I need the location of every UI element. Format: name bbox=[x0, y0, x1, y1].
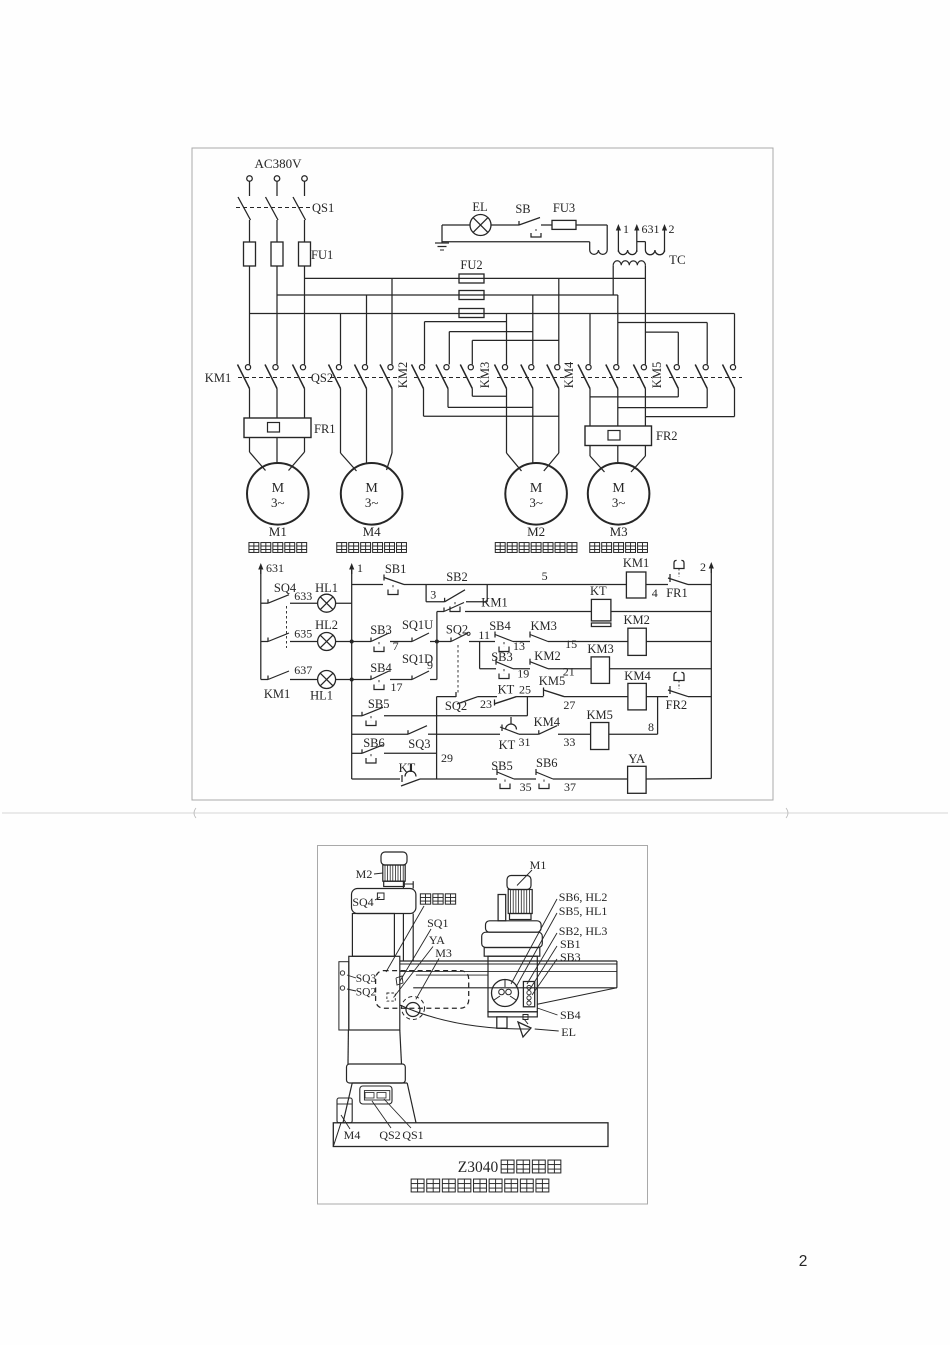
label SB4 machine bbox=[537, 1008, 580, 1022]
svg-text:FR1: FR1 bbox=[666, 586, 688, 600]
wire crossover KM4-KM5 c bbox=[645, 416, 734, 418]
svg-text:YA: YA bbox=[429, 933, 445, 947]
svg-text:SB6: SB6 bbox=[536, 756, 558, 770]
transformer TC secondary winding b bbox=[637, 242, 665, 255]
label FU2 bbox=[460, 258, 482, 272]
label EL bbox=[472, 200, 487, 214]
svg-text:SQ4: SQ4 bbox=[352, 895, 373, 909]
wire row A bbox=[352, 584, 712, 586]
svg-text:YA: YA bbox=[628, 752, 645, 766]
label SB2 bbox=[446, 570, 468, 584]
svg-text:SB3: SB3 bbox=[491, 650, 513, 664]
switch SQ4 contact b bbox=[268, 633, 289, 642]
wire QS2 outputs to M4 bbox=[341, 389, 393, 472]
svg-text:M: M bbox=[530, 481, 543, 496]
thermal relay FR1 bbox=[244, 418, 311, 438]
wire bus V drop to KM4 pole2 bbox=[617, 295, 619, 364]
svg-text:FR2: FR2 bbox=[666, 698, 688, 712]
svg-text:631: 631 bbox=[642, 222, 660, 236]
label M3 bbox=[610, 524, 628, 539]
svg-text:31: 31 bbox=[519, 735, 531, 749]
svg-text:M: M bbox=[365, 481, 378, 496]
transformer TC primary winding bbox=[613, 261, 645, 266]
wire node 8 branch bbox=[657, 697, 659, 735]
machine pedestal panel bbox=[360, 1086, 392, 1104]
label wire 635 bbox=[294, 627, 312, 641]
label KM5 main bbox=[650, 362, 664, 388]
button SB6 bbox=[362, 745, 383, 763]
wire bus V (y295) bbox=[277, 294, 618, 296]
label wire 5 bbox=[542, 569, 548, 583]
svg-text:M2: M2 bbox=[356, 867, 373, 881]
label SQ3 machine bbox=[347, 973, 376, 985]
svg-text:KT: KT bbox=[590, 584, 607, 598]
motor M2 bbox=[505, 463, 567, 525]
svg-text:8: 8 bbox=[648, 720, 654, 734]
link SQ2 contacts bbox=[457, 645, 459, 694]
svg-text:KM3: KM3 bbox=[478, 362, 492, 388]
wire EL return bbox=[442, 242, 590, 250]
link SQ4 contacts bbox=[286, 606, 288, 648]
svg-text:SB: SB bbox=[515, 202, 530, 216]
wire rail 1 bbox=[351, 570, 353, 779]
wire KM1 outputs to FR1 bbox=[250, 389, 305, 419]
label M4 machine bbox=[341, 1115, 360, 1142]
wire KM5 outputs bbox=[678, 389, 734, 417]
label KT coil bbox=[590, 584, 607, 598]
node tap 631 arrow bbox=[634, 222, 659, 252]
svg-text:7: 7 bbox=[393, 639, 399, 653]
svg-text:M4: M4 bbox=[344, 1128, 361, 1142]
label KM1 main bbox=[205, 371, 231, 385]
contactor KM3 main contacts bbox=[495, 365, 567, 389]
svg-text:KM4: KM4 bbox=[624, 669, 651, 683]
machine SQ1 switch detail bbox=[396, 976, 403, 985]
contactor KM2 main contacts bbox=[412, 365, 481, 389]
wire bus U to QS2 pole3 bbox=[391, 278, 393, 364]
contactor KM1 main contacts bbox=[238, 365, 313, 389]
coil KM1 bbox=[626, 572, 646, 598]
contact KT delayed close bbox=[495, 697, 517, 706]
machine column pole bbox=[403, 881, 413, 961]
label FU3 bbox=[553, 201, 575, 215]
svg-text:631: 631 bbox=[266, 561, 284, 575]
wire jumper KM5p2 feed bbox=[618, 323, 707, 365]
node 631 rail arrow bbox=[258, 561, 284, 575]
label SQ4 machine bbox=[352, 895, 380, 909]
wire crossover KM2-KM3 b bbox=[448, 406, 533, 408]
wire bus W (y313) bbox=[250, 313, 735, 315]
motor M4 bbox=[341, 463, 403, 525]
junction node 9 top bbox=[435, 640, 439, 644]
label SQ4 bbox=[274, 581, 297, 595]
page separator line bbox=[2, 808, 948, 818]
svg-text:HL2: HL2 bbox=[315, 618, 338, 632]
svg-text:29: 29 bbox=[441, 751, 453, 765]
svg-text:9: 9 bbox=[427, 658, 433, 672]
wire KM4 outputs to FR2 bbox=[590, 389, 645, 427]
label M3 machine bbox=[416, 946, 452, 999]
machine column neck bbox=[348, 1030, 402, 1064]
fuse FU3 bbox=[552, 220, 576, 229]
machine button box bbox=[523, 982, 534, 1007]
svg-text:2: 2 bbox=[669, 222, 675, 236]
label HL3 bbox=[310, 689, 333, 703]
label YA machine bbox=[394, 933, 446, 998]
wire SB to FU3 bbox=[541, 224, 552, 226]
switch SQ1U bbox=[412, 633, 429, 642]
button SB4 interlock bbox=[495, 632, 513, 652]
wire SQ3 row bbox=[352, 733, 437, 735]
svg-text:SB4: SB4 bbox=[560, 1008, 581, 1022]
switch SQ4 contact a bbox=[268, 595, 289, 604]
label SB3 bbox=[370, 623, 392, 637]
svg-text:HL1: HL1 bbox=[315, 581, 338, 595]
wire phase L3 drop to KM1 bbox=[304, 266, 306, 364]
machine lamp EL bbox=[518, 1015, 531, 1038]
label M4 bbox=[363, 524, 382, 539]
wire phase L2 drop to KM1 bbox=[276, 266, 278, 364]
label wire 9 bbox=[427, 658, 433, 672]
svg-text:19: 19 bbox=[517, 667, 529, 681]
wire row E bbox=[437, 733, 658, 735]
svg-text:FR2: FR2 bbox=[656, 429, 678, 443]
wire bus U (y278) bbox=[305, 277, 646, 279]
contact KM2 interlock bbox=[530, 659, 548, 669]
svg-text:FU2: FU2 bbox=[460, 258, 482, 272]
wire ground to EL bbox=[442, 224, 470, 226]
label KT delayed open bbox=[499, 738, 516, 752]
label KM5 coil bbox=[586, 708, 612, 722]
label wire 37 bbox=[564, 780, 576, 794]
svg-text:27: 27 bbox=[563, 698, 575, 712]
machine head ring bbox=[484, 948, 540, 957]
svg-text:SB3: SB3 bbox=[370, 623, 392, 637]
label wire 23 bbox=[480, 697, 492, 711]
svg-text:KM5: KM5 bbox=[586, 708, 612, 722]
svg-text:SQ2: SQ2 bbox=[446, 623, 468, 637]
label KM3 interlock bbox=[530, 619, 556, 633]
machine YA detail dashed bbox=[387, 993, 395, 1001]
machine column collar bbox=[347, 1064, 406, 1083]
contact KM1 aux bbox=[444, 603, 464, 612]
wire bus W drop to KM5 pole3 bbox=[734, 314, 736, 365]
label SB6 HL2 machine bbox=[511, 890, 607, 984]
label wire 11 bbox=[478, 628, 490, 642]
label YA coil bbox=[628, 752, 645, 766]
wire FU3 to TC lamp winding bbox=[576, 225, 607, 250]
label SB3 machine bbox=[532, 950, 581, 995]
svg-text:13: 13 bbox=[513, 639, 525, 653]
wire row B bbox=[352, 641, 712, 643]
button SB5 interlock bbox=[497, 769, 514, 789]
coil KM4 bbox=[628, 683, 646, 710]
contact KM4 aux bbox=[539, 726, 557, 735]
wire bus W to QS2 pole1 bbox=[340, 314, 342, 365]
svg-text:SB5, HL1: SB5, HL1 bbox=[559, 904, 608, 918]
svg-text:KM4: KM4 bbox=[534, 715, 561, 729]
wire bus V to QS2 pole2 bbox=[366, 295, 368, 364]
svg-text:M: M bbox=[272, 481, 285, 496]
machine base bbox=[333, 1123, 608, 1147]
contact KT delayed open bbox=[500, 717, 519, 734]
contact KT delayed close 2 bbox=[401, 764, 420, 786]
junction rail1 row B2 bbox=[350, 678, 354, 682]
motor M1 bbox=[247, 463, 309, 525]
svg-text:M2: M2 bbox=[527, 524, 545, 539]
svg-text:FU1: FU1 bbox=[311, 248, 333, 262]
machine arm underside curve bbox=[400, 1005, 530, 1029]
label SB2 HL3 machine bbox=[527, 924, 607, 984]
svg-text:3~: 3~ bbox=[529, 495, 543, 510]
svg-text:SB5: SB5 bbox=[368, 697, 390, 711]
contactor KM5 main contacts bbox=[666, 365, 742, 389]
label SQ1U bbox=[402, 618, 433, 632]
lamp HL1 bbox=[318, 594, 336, 612]
label M2 machine bbox=[356, 867, 383, 881]
page number 2 bbox=[799, 1253, 808, 1270]
caption Z3040 bbox=[458, 1159, 561, 1176]
wire jumper KM2p3 feed bbox=[472, 340, 559, 364]
contact FR1 NC bbox=[668, 560, 688, 584]
button SB2 bbox=[445, 590, 465, 612]
wire row B2 bbox=[352, 642, 437, 680]
svg-text:KM1: KM1 bbox=[205, 371, 231, 385]
svg-text:3~: 3~ bbox=[271, 495, 285, 510]
label wire 35 bbox=[520, 780, 532, 794]
label KM2 main bbox=[396, 362, 410, 388]
svg-text:25: 25 bbox=[519, 683, 531, 697]
wire jumper KM2p1 feed bbox=[425, 322, 507, 365]
label QS2 machine bbox=[372, 1101, 401, 1142]
wire bus U drop to KM4 pole3 bbox=[644, 278, 646, 364]
svg-text:QS1: QS1 bbox=[402, 1128, 423, 1142]
machine pedestal bbox=[343, 1083, 416, 1123]
terminal L1 bbox=[247, 176, 253, 196]
svg-text:SB1: SB1 bbox=[385, 562, 407, 576]
switch QS1 bbox=[236, 197, 311, 242]
transformer TC lamp winding bbox=[590, 250, 608, 254]
svg-text:KM2: KM2 bbox=[396, 362, 410, 388]
button SB1 bbox=[384, 575, 404, 595]
button SB6 interlock bbox=[536, 769, 553, 789]
svg-text:M: M bbox=[612, 481, 625, 496]
label wire 633 bbox=[294, 589, 312, 603]
label KM4 coil bbox=[624, 669, 651, 683]
label wire 7 bbox=[393, 639, 399, 653]
svg-text:FU3: FU3 bbox=[553, 201, 575, 215]
switch SQ2 contact a bbox=[451, 632, 470, 641]
label SQ3 bbox=[408, 737, 430, 751]
machine pump M4 box bbox=[337, 1098, 352, 1123]
label wire 21 bbox=[563, 665, 575, 679]
svg-text:KM1: KM1 bbox=[264, 687, 290, 701]
wire crossover KM2-KM3 a bbox=[472, 395, 506, 397]
svg-text:635: 635 bbox=[294, 627, 312, 641]
label SQ1 machine bbox=[400, 916, 448, 981]
switch SQ2 contact b bbox=[456, 692, 478, 704]
label wire 8 bbox=[648, 720, 654, 734]
fuse FU2 bbox=[459, 274, 484, 318]
svg-text:SB1: SB1 bbox=[560, 937, 581, 951]
svg-text:SB2: SB2 bbox=[446, 570, 468, 584]
wire bus W drop to KM4 pole1 bbox=[589, 314, 591, 365]
label KT contact bbox=[498, 683, 515, 697]
label QS1 machine bbox=[384, 1099, 424, 1142]
svg-text:SB6: SB6 bbox=[363, 736, 385, 750]
label FU1 bbox=[311, 248, 333, 262]
svg-text:15: 15 bbox=[565, 637, 577, 651]
terminal L2 bbox=[274, 176, 280, 196]
label M1 bbox=[269, 524, 287, 539]
svg-text:SQ2: SQ2 bbox=[445, 699, 467, 713]
node 2 rail arrow bbox=[700, 560, 714, 574]
machine head bottom bbox=[488, 1012, 537, 1028]
svg-text:SQ2: SQ2 bbox=[356, 987, 377, 999]
svg-text:QS1: QS1 bbox=[312, 201, 334, 215]
node 1 rail arrow bbox=[349, 561, 363, 575]
svg-text:SQ1: SQ1 bbox=[427, 916, 448, 930]
label SB4 interlock bbox=[489, 619, 511, 633]
svg-text:3~: 3~ bbox=[612, 495, 626, 510]
svg-text:M3: M3 bbox=[435, 946, 452, 960]
label SQ2 b bbox=[445, 699, 467, 713]
switch QS2 bbox=[329, 365, 401, 389]
svg-text:5: 5 bbox=[542, 569, 548, 583]
coil KM2 bbox=[628, 628, 646, 655]
label M1 caption bbox=[249, 543, 307, 553]
svg-text:SB5: SB5 bbox=[491, 759, 513, 773]
wire crossover KM2-KM3 c bbox=[424, 415, 559, 417]
label M3 caption bbox=[590, 543, 648, 553]
label FR2 contact bbox=[666, 698, 688, 712]
fuse FU1 bbox=[244, 242, 311, 266]
label wire 17 bbox=[391, 680, 403, 694]
machine arm beam bbox=[400, 961, 617, 1004]
label EL machine bbox=[535, 1025, 576, 1039]
lamp HL2 bbox=[318, 633, 336, 651]
ground symbol bbox=[435, 225, 449, 250]
svg-text:1: 1 bbox=[623, 222, 629, 236]
top figure border frame bbox=[192, 148, 773, 800]
label M4 caption bbox=[337, 543, 407, 553]
lamp HL3 bbox=[318, 671, 336, 689]
label QS2 bbox=[311, 371, 333, 385]
wire EL to SB bbox=[491, 224, 519, 226]
machine head block bbox=[498, 895, 506, 921]
machine M2 motor bbox=[381, 852, 407, 887]
label M1 machine bbox=[517, 858, 546, 886]
wire node 25 branch bbox=[526, 697, 528, 716]
motor M3 bbox=[588, 463, 650, 525]
label wire 33 bbox=[563, 735, 575, 749]
svg-text:KM2: KM2 bbox=[534, 649, 560, 663]
contact KM3 interlock bbox=[530, 632, 548, 642]
svg-text:37: 37 bbox=[564, 780, 576, 794]
label FR1 contact bbox=[666, 586, 688, 600]
label SQ2 a bbox=[446, 623, 468, 637]
label M2 bbox=[527, 524, 545, 539]
wire KM3 outputs to M2 bbox=[507, 389, 559, 472]
wire rail 2 bbox=[710, 569, 712, 779]
machine head flange 2 bbox=[482, 932, 543, 947]
svg-text:KT: KT bbox=[498, 683, 515, 697]
label HL1 bbox=[315, 581, 338, 595]
wire bus V drop to KM3 pole2 bbox=[532, 295, 534, 364]
svg-text:637: 637 bbox=[294, 663, 312, 677]
label wire 3 bbox=[430, 588, 436, 602]
svg-text:17: 17 bbox=[391, 680, 403, 694]
wire row D bbox=[437, 696, 712, 698]
wire bus W drop to KM3 pole1 bbox=[506, 314, 508, 365]
label HL2 bbox=[315, 618, 338, 632]
contact KM1 lamp bbox=[268, 671, 289, 680]
wire TC primary right leg bbox=[644, 265, 646, 278]
svg-text:KT: KT bbox=[399, 761, 416, 775]
solenoid coil YA bbox=[628, 766, 647, 793]
node tap 1 arrow bbox=[616, 222, 629, 252]
machine top housing bbox=[352, 889, 416, 914]
label wire 19 bbox=[517, 667, 529, 681]
wire FR2 to motor M3 bbox=[590, 446, 645, 473]
wire SB6 row bbox=[352, 752, 437, 754]
label KM1 aux bbox=[481, 596, 507, 610]
label SB5 bbox=[368, 697, 390, 711]
machine M1 motor bbox=[507, 876, 532, 920]
label KM5 interlock bbox=[539, 674, 565, 688]
label wire 15 bbox=[565, 637, 577, 651]
label FR2 bbox=[656, 429, 678, 443]
wire rail 631 bbox=[260, 570, 262, 680]
svg-text:KT: KT bbox=[499, 738, 516, 752]
machine M3 detail dashed bbox=[402, 997, 425, 1020]
svg-text:M3: M3 bbox=[610, 524, 628, 539]
svg-text:KM3: KM3 bbox=[530, 619, 556, 633]
wire node 29 rail bbox=[436, 697, 438, 779]
machine head body bbox=[488, 956, 537, 1012]
relay coil KT bbox=[591, 599, 611, 626]
label KM4 aux bbox=[534, 715, 561, 729]
label SB1 machine bbox=[530, 937, 581, 989]
svg-text:EL: EL bbox=[472, 200, 487, 214]
label KM1 coil bbox=[623, 556, 649, 570]
coil KM3 bbox=[591, 657, 609, 684]
svg-text:KM5: KM5 bbox=[650, 362, 664, 388]
label wire 25 bbox=[519, 683, 531, 697]
svg-text:KM2: KM2 bbox=[623, 613, 649, 627]
label SB1 bbox=[385, 562, 407, 576]
machine cabinet door dashed bbox=[376, 971, 469, 1009]
wire lamp row 1 bbox=[261, 602, 352, 604]
svg-text:AC380V: AC380V bbox=[255, 156, 303, 171]
wire KM2 outputs bbox=[424, 389, 473, 417]
svg-text:KM1: KM1 bbox=[481, 596, 507, 610]
button SB4 bbox=[371, 671, 389, 690]
node AC380V supply label bbox=[255, 156, 303, 171]
wire KT row bbox=[437, 612, 711, 642]
svg-text:KM5: KM5 bbox=[539, 674, 565, 688]
wire row C bbox=[480, 642, 712, 669]
label SB3 interlock bbox=[491, 650, 513, 664]
label SB6 bbox=[363, 736, 385, 750]
svg-text:M4: M4 bbox=[363, 524, 382, 539]
label wire 637 bbox=[294, 663, 312, 677]
svg-text:EL: EL bbox=[561, 1025, 576, 1039]
svg-text:2: 2 bbox=[700, 560, 706, 574]
label KT 2 bbox=[399, 761, 416, 775]
svg-text:33: 33 bbox=[563, 735, 575, 749]
label SB6 interlock bbox=[536, 756, 558, 770]
